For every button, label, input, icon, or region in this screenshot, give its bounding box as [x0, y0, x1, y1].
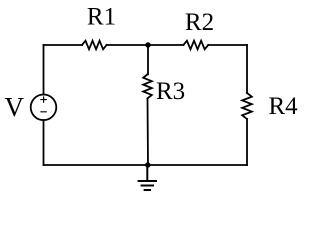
junction node A	[145, 42, 150, 47]
junction node ground	[145, 162, 150, 167]
svg-text:R2: R2	[185, 9, 214, 36]
svg-text:R4: R4	[269, 93, 299, 120]
resistor R3	[143, 74, 152, 98]
wire right rail bottom	[246, 119, 248, 165]
resistor R4	[242, 93, 252, 119]
wire right rail top	[246, 45, 248, 93]
resistor R1	[82, 41, 107, 50]
wire top: V to R1	[44, 44, 83, 46]
ground	[139, 165, 156, 190]
wire left rail top	[43, 45, 45, 95]
svg-text:V: V	[5, 92, 25, 122]
wire top: R1 to node A	[107, 44, 148, 46]
wire bottom rail	[44, 164, 248, 166]
svg-text:R1: R1	[87, 4, 116, 31]
svg-text:R3: R3	[156, 78, 185, 105]
voltage source V	[31, 95, 57, 121]
wire top: R2 to top-right corner	[208, 44, 247, 46]
wire R3 branch top	[147, 45, 149, 74]
wire left rail bottom	[43, 120, 45, 165]
wire top: node A to R2	[148, 44, 183, 46]
wire R3 branch bottom	[147, 98, 150, 165]
resistor R2	[183, 41, 208, 50]
